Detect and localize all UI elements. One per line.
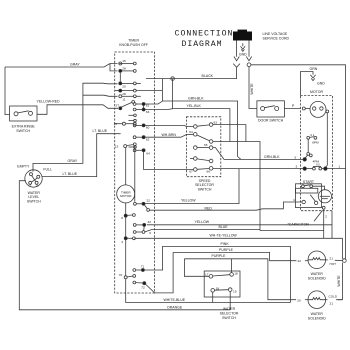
plug prong left [234,41,239,61]
svg-text:4: 4 [293,198,295,202]
svg-text:WH-BRN: WH-BRN [162,133,177,137]
svg-text:LINE VOLTAGE: LINE VOLTAGE [263,32,288,36]
wire from timer 72 [146,252,173,293]
svg-text:EMPTY: EMPTY [17,165,30,169]
wire YELLOW-RED extra rinse to timer 2T [37,105,118,115]
wire timer 64 to speed selector 67 [144,152,194,170]
wire 3 to motor [213,168,303,170]
ground symbol cord [241,43,246,51]
label PURPLE lower [212,254,227,258]
label YELLOW 32 [195,220,210,224]
svg-text:9: 9 [149,231,151,235]
label PURPLE upper [219,248,234,252]
wire timer contact bus [134,146,136,202]
svg-text:BLUE: BLUE [219,225,229,229]
wire selector drop to white-blue [212,292,214,303]
wire service cord right to right edge [251,65,346,259]
svg-text:70: 70 [119,273,123,277]
svg-text:17: 17 [205,272,209,276]
svg-text:20: 20 [297,299,301,303]
timer motor [117,148,135,214]
label WHITE vertical right [337,275,341,287]
wire YELLOW timer 32 [147,224,332,226]
motor box [301,96,333,211]
svg-text:72: 72 [141,286,145,290]
svg-text:WATER: WATER [28,191,41,195]
svg-text:15: 15 [122,59,126,63]
wire ORANGE long bottom from water level switch [19,181,230,310]
label WHITE-YELLOW [210,234,238,238]
svg-text:GRN-BLK: GRN-BLK [264,155,280,159]
svg-text:PURPLE: PURPLE [212,254,227,258]
wire GRN motor ground [301,72,314,96]
label 20 cold [297,299,301,303]
wire PINK from timer 71 [145,246,291,302]
svg-text:YELLOW-RED: YELLOW-RED [37,99,61,103]
label 1 motor output [339,165,341,169]
timer terminal 62 [133,136,145,139]
label DOOR SWITCH [258,119,284,123]
ground symbol motor [310,75,315,81]
svg-text:START: START [303,180,315,184]
svg-text:WHITE: WHITE [337,275,341,287]
timer terminal 20 [119,82,141,85]
svg-text:15: 15 [115,145,119,149]
motor main winding [302,101,326,117]
svg-text:YEL-BLK: YEL-BLK [187,104,202,108]
timer terminal 15 [119,62,136,65]
label FULL [43,168,52,172]
label 12 16 water level [28,184,39,188]
label GND cord [239,53,247,57]
svg-text:CONNECTION: CONNECTION [175,30,234,39]
label MOTOR [310,90,323,94]
timer terminal 61 [133,103,145,109]
extra rinse switch [10,106,37,121]
wire WHITE-YELLOW to hot solenoid node [135,238,343,258]
svg-text:21: 21 [330,302,334,306]
wire RED to start switch [150,202,303,210]
svg-text:0.0: 0.0 [316,162,320,166]
svg-text:21: 21 [330,256,334,260]
label 4 start input [293,198,295,202]
timer box [115,52,155,293]
svg-text:2T: 2T [116,103,120,107]
svg-text:LEVEL: LEVEL [28,195,39,199]
label PINK [221,242,230,246]
svg-text:1: 1 [339,165,341,169]
label GRN-BLK upper [188,97,204,101]
label WATER LEVEL SWITCH [27,191,41,204]
title CONNECTION DIAGRAM [175,30,234,49]
label 22 hot [297,259,301,263]
timer terminal 13 [115,122,137,125]
timer terminal 72 [133,281,146,285]
svg-text:20: 20 [122,85,126,89]
svg-text:16: 16 [35,184,39,188]
motor internal riser [326,110,329,167]
svg-text:LT. BLUE: LT. BLUE [93,129,108,133]
svg-text:PURPLE: PURPLE [219,248,234,252]
svg-text:22: 22 [297,259,301,263]
svg-text:MOTOR: MOTOR [120,194,132,198]
svg-text:DOOR SWITCH: DOOR SWITCH [258,119,284,123]
label TIMER MOTOR [120,190,132,198]
wire speed selector right mid [213,142,260,231]
svg-text:28: 28 [122,92,126,96]
svg-text:12: 12 [28,184,32,188]
wire door switch to motor P [284,108,300,110]
label EXTRA RINSE SWITCH [12,125,36,134]
wire motor 1 output [327,168,346,170]
wire branch to timer 11 [83,95,118,96]
svg-text:62: 62 [146,137,150,141]
wire LT. BLUE water level to timer 13 [42,134,121,177]
svg-text:WHITE: WHITE [250,83,254,95]
label GRAY top [70,62,80,66]
svg-text:64: 64 [146,152,150,156]
door switch [257,101,285,117]
label GND motor [317,82,325,86]
wire selector drop to orange [229,291,231,309]
wire selector 18 riser [231,259,233,273]
wire GRAY water level to timer 20 [33,83,118,172]
svg-text:63: 63 [146,110,150,114]
label YELLOW 22 [181,199,196,203]
timer terminal 63 [133,108,145,111]
svg-text:2: 2 [325,214,327,218]
svg-text:COLD: COLD [329,295,338,299]
label 18 selector bl [216,286,220,290]
wire capacitor return [260,209,324,238]
timer terminal number labels [114,59,126,148]
wire GRN-BLK to motor 5 [213,148,303,160]
timer terminal 4 [124,237,135,276]
label WATER SELECTOR SWITCH [220,307,239,320]
label 2 capacitor [325,214,327,218]
svg-text:GND: GND [239,53,247,57]
svg-text:65: 65 [204,143,208,147]
svg-text:4: 4 [121,240,123,244]
svg-text:SERVICE CORD: SERVICE CORD [263,37,290,41]
timer terminal 2T [119,101,135,110]
label BLACK [202,74,214,78]
svg-text:2 1: 2 1 [310,133,315,137]
wire timer 63 to speed selector 65 [145,108,172,111]
label RED [205,206,213,210]
svg-text:KNOB-PUSH OFF: KNOB-PUSH OFF [119,43,148,47]
wire YEL-BLK [173,79,230,142]
timer terminal 32 [133,223,145,230]
svg-text:11: 11 [122,98,125,102]
wire node to cold solenoid [338,263,343,300]
label COLD 21 [329,295,338,306]
svg-text:SOLENOID: SOLENOID [308,277,327,281]
water selector switch box [204,271,240,297]
svg-text:32: 32 [148,220,152,224]
motor 4PM terminal [303,154,312,161]
wire WH-BRN timer 62 to speed selector [145,134,193,137]
svg-text:3: 3 [296,165,298,169]
wire speed selector 63 output [213,125,246,142]
node right edge junction [342,258,346,262]
svg-text:WATER: WATER [311,272,324,276]
timer terminal 70 [124,275,135,279]
label YELLOW-RED [37,99,61,103]
wire left vertical to extra rinse switch [5,67,10,115]
wire BLACK from service cord [146,68,237,79]
label EMPTY [17,165,30,169]
timer terminal 9 [133,230,151,234]
svg-text:GRAY: GRAY [70,62,80,66]
label ORANGE [167,305,183,309]
label GRN-BLK motor [264,155,280,159]
label WHITE-BLUE [164,298,186,302]
label BLUE [219,225,229,229]
timer auxiliary contacts [129,114,137,148]
timer terminal 15b [124,143,137,148]
svg-text:63: 63 [214,120,218,124]
wire BLUE timer 9 [152,229,261,231]
wire YELLOW timer 22 to speed selector 66 [145,169,239,204]
svg-text:YELLOW: YELLOW [181,199,196,203]
timer terminal 22 [134,202,150,211]
svg-text:SWITCH: SWITCH [198,188,212,192]
svg-text:60: 60 [146,125,150,129]
svg-text:GRN: GRN [310,67,318,71]
line voltage service cord plug [233,30,252,41]
timer terminal 28 [119,69,136,81]
motor 0.0 contact row [303,166,327,170]
label YEL-BLK [187,104,202,108]
svg-text:SWITCH: SWITCH [16,129,30,133]
svg-text:*CAPACITOR: *CAPACITOR [288,222,310,226]
label P motor input [292,104,295,108]
svg-text:SWITCH: SWITCH [27,200,41,204]
node black junction [171,77,175,81]
wire GRAY bus to timer 15/28 [5,64,118,71]
label 5 motor input [295,155,297,159]
label LINE VOLTAGE SERVICE CORD [263,32,290,41]
svg-text:LT. BLUE: LT. BLUE [63,172,78,176]
capacitor [314,190,332,222]
wire motor box drop [331,211,333,239]
svg-text:71: 71 [141,265,145,269]
label 19 selector [233,290,237,294]
motor 6PM contact [305,136,317,157]
wire GRN-BLK upper [162,79,241,160]
svg-text:18: 18 [216,286,220,290]
receptacle splice black lead [233,64,240,68]
svg-text:ORANGE: ORANGE [167,305,183,309]
svg-text:SWITCH: SWITCH [222,316,236,320]
motor internal labels [310,133,320,166]
wire timer 61 to speed selector [145,101,162,104]
svg-text:WATER: WATER [311,312,324,316]
water solenoid cold [308,291,342,309]
svg-text:PINK: PINK [221,242,230,246]
svg-text:66: 66 [207,169,211,173]
wire PURPLE lower to selector 17 and cold solenoid 20 [184,259,308,300]
water solenoid hot [296,251,342,269]
water level switch [25,170,42,187]
svg-text:RED: RED [205,206,213,210]
label 17 selector [205,272,209,276]
svg-text:13: 13 [114,122,118,126]
label START [303,180,315,184]
svg-text:BLACK: BLACK [202,74,214,78]
svg-text:WH-TE-YELLOW: WH-TE-YELLOW [210,234,238,238]
node service cord white [247,63,251,67]
label WATER SOLENOID cold [308,312,327,320]
svg-text:GRAY: GRAY [68,159,78,163]
svg-text:HOT: HOT [330,262,337,266]
label SPEED SELECTOR SWITCH [195,179,214,192]
svg-text:8: 8 [121,216,123,220]
timer terminal 64 [133,149,145,152]
svg-text:6PM: 6PM [312,141,319,145]
svg-text:MOTOR: MOTOR [310,90,323,94]
label WHITE vertical cord [250,83,254,95]
timer terminal 11 [119,95,141,98]
timer terminal 60 [133,124,193,127]
timer terminal 28b [115,89,163,92]
label LT. BLUE lower [63,172,78,176]
label TIMER KNOB-PUSH OFF [119,39,148,48]
label GRAY water level [68,159,78,163]
svg-text:5: 5 [295,155,297,159]
svg-text:61: 61 [146,103,150,107]
timer terminal 71 [133,269,144,272]
speed selector terminal labels [189,120,217,173]
label WATER SOLENOID hot [308,272,327,280]
svg-text:19: 19 [233,290,237,294]
wire WHITE-BLUE from timer 70 [126,279,291,302]
svg-text:GND: GND [317,82,325,86]
svg-text:WHITE-BLUE: WHITE-BLUE [164,298,186,302]
wire PURPLE to hot solenoid 22 [173,252,308,260]
svg-text:22: 22 [147,198,151,202]
svg-text:FULL: FULL [43,168,52,172]
plug prong right [246,41,251,61]
svg-text:64: 64 [189,130,193,134]
svg-text:GRN-BLK: GRN-BLK [188,97,204,101]
wire WHITE cord to door switch [249,67,257,109]
svg-text:YELLOW: YELLOW [195,220,210,224]
svg-text:TIMER: TIMER [128,39,139,43]
label LT. BLUE upper [93,129,108,133]
label 21 HOT [330,256,337,266]
timer terminal 8 [124,214,135,237]
svg-text:EXTRA RINSE: EXTRA RINSE [12,125,36,129]
svg-text:67: 67 [189,169,193,173]
label 3 motor input [296,165,298,169]
start switch [296,184,325,208]
label CAPACITOR [288,222,310,226]
svg-text:SOLENOID: SOLENOID [308,317,327,321]
svg-text:28: 28 [122,67,126,71]
label WH-BRN [162,133,177,137]
speed selector switch box [186,117,220,177]
label 18 selector [234,271,238,275]
svg-text:18: 18 [234,271,238,275]
svg-text:DIAGRAM: DIAGRAM [181,40,222,49]
speed selector contacts [190,123,213,172]
label GRN [310,67,318,71]
